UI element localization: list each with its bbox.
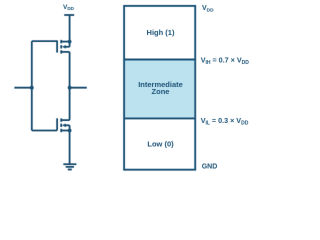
svg-text:VIH = 0.7 × VDD: VIH = 0.7 × VDD: [201, 56, 250, 66]
svg-text:GND: GND: [202, 164, 218, 171]
svg-text:Low (0): Low (0): [147, 140, 174, 149]
svg-text:VIL = 0.3 × VDD: VIL = 0.3 × VDD: [201, 116, 249, 126]
svg-text:VDD: VDD: [63, 4, 75, 11]
svg-text:High (1): High (1): [147, 28, 175, 37]
svg-text:Zone: Zone: [152, 87, 170, 96]
svg-text:VDD: VDD: [202, 5, 214, 13]
